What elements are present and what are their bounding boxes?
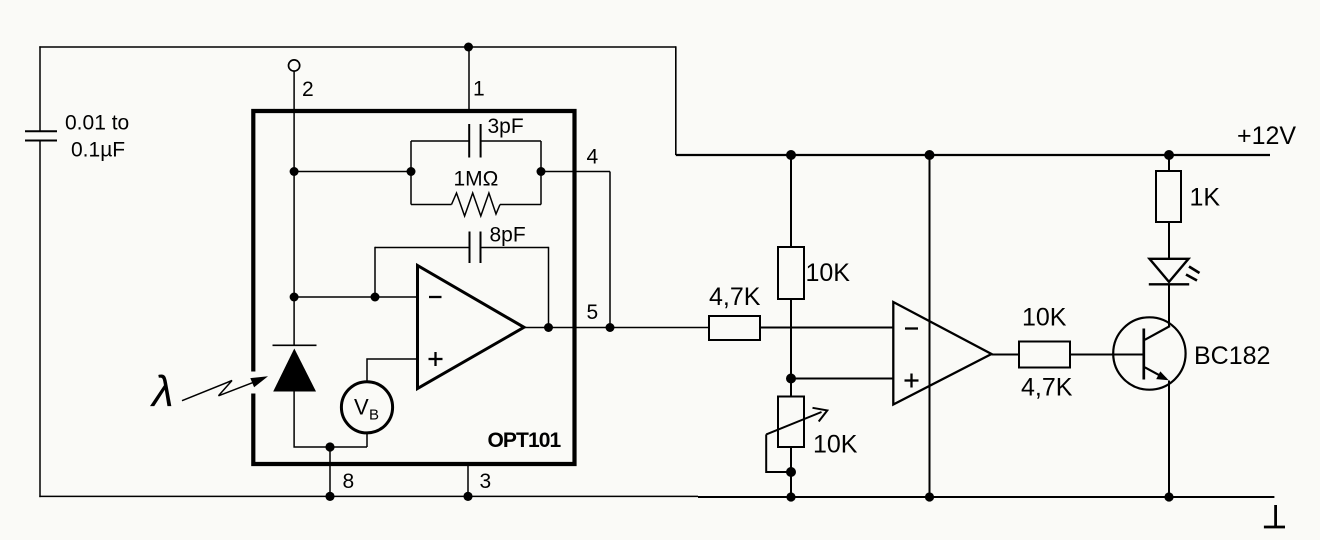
svg-text:10K: 10K [813, 431, 858, 459]
svg-text:3: 3 [480, 470, 492, 493]
wire pot bottom to ground rail [790, 447, 792, 497]
resistor R4 base resistor body [1019, 342, 1070, 368]
voltage source VB circle [341, 382, 392, 433]
svg-text:4: 4 [587, 146, 599, 169]
wire feedback mid rail pin2 to loop [294, 171, 411, 173]
wire photodiode anode down and to VB [294, 392, 367, 448]
op-amp U1 plus sign [429, 352, 443, 366]
svg-text:1: 1 [473, 78, 485, 101]
svg-text:BC182: BC182 [1194, 342, 1270, 370]
wire loop to pin 4 [541, 171, 610, 173]
pin 8 wire to ground rail [329, 447, 331, 496]
LED D2 cathode bar [1149, 283, 1189, 285]
node pin8 tap [325, 442, 334, 451]
wire top supply from bypass cap to +12V corner [39, 46, 676, 48]
transistor Q1 emitter [1145, 367, 1166, 379]
svg-text:2: 2 [302, 78, 314, 101]
node wiper / bottom [786, 467, 796, 477]
wire pin 5 output [524, 327, 709, 329]
svg-text:3pF: 3pF [488, 115, 524, 138]
wire non-inverting input from VB [367, 359, 418, 382]
wire emitter to ground rail [1168, 381, 1170, 498]
node output / pin4 [606, 323, 615, 332]
capacitor C-bypass 0.01-0.1uF plates [25, 131, 57, 140]
svg-text:10K: 10K [806, 259, 851, 287]
node pot / ground rail [786, 492, 795, 501]
node rail / 10K [786, 150, 796, 160]
wire non-inverting input [791, 378, 893, 380]
node loop right [537, 167, 546, 176]
resistor R2 10K body [778, 247, 804, 299]
wire VB bottom to common [366, 433, 368, 447]
potentiometer arrow open head [813, 408, 828, 422]
op-amp U2 comparator triangle [893, 302, 991, 405]
svg-text:4,7K: 4,7K [1021, 374, 1073, 402]
pin 2 wire down to photodiode cathode [293, 71, 295, 345]
transistor Q1 base bar [1142, 329, 1145, 380]
svg-text:0.1µF: 0.1µF [71, 139, 125, 162]
value label 0.01 to 0.1uF [65, 112, 129, 162]
wire inverting input [294, 296, 418, 298]
node pin2/feedback [290, 167, 299, 176]
svg-text:V: V [354, 395, 369, 420]
node 8pF / inv input [371, 293, 380, 302]
wire comparator output to base resistor [992, 354, 1020, 356]
wire left vertical from cap to ground rail [39, 141, 41, 498]
svg-text:5: 5 [587, 301, 599, 324]
wire 1K to LED anode [1168, 222, 1170, 259]
node opamp supply / ground rail [925, 492, 934, 501]
svg-text:1K: 1K [1190, 184, 1221, 212]
svg-text:+12V: +12V [1237, 122, 1296, 150]
op-amp U1 triangle (internal) [418, 266, 525, 389]
wire collector up to LED [1168, 284, 1170, 327]
resistor R3 4,7K body [709, 316, 760, 340]
op-amp U2 plus sign [905, 374, 919, 388]
potentiometer P1 10K body [778, 397, 804, 448]
+12V power rail [676, 154, 1270, 156]
node rail / opamp supply [925, 150, 935, 160]
svg-text:8pF: 8pF [490, 224, 526, 247]
wire 4,7K to comparator inverting input [760, 327, 893, 329]
light arrow filled head [250, 376, 268, 387]
transistor Q1 BC182 circle [1113, 317, 1185, 389]
svg-text:λ: λ [150, 367, 174, 416]
wire 8pF loop [375, 247, 549, 328]
node loop left [407, 167, 416, 176]
ground symbol [1264, 505, 1285, 527]
wire bottom ground rail left thin section [39, 495, 698, 497]
svg-text:OPT101: OPT101 [488, 429, 562, 452]
pin 2 open terminal circle [289, 60, 300, 71]
LED D2 triangle [1150, 259, 1189, 282]
svg-text:B: B [369, 407, 379, 424]
svg-text:4,7K: 4,7K [709, 283, 761, 311]
wire feedback loop 3pF / 1M rectangle [411, 141, 541, 205]
node junction top wire / pin1 [464, 43, 473, 52]
node emitter / ground rail [1164, 492, 1173, 501]
pin 3 wire to ground rail [467, 464, 469, 496]
label VB [354, 395, 379, 424]
wire +12V to 10K resistor [790, 155, 792, 247]
wire opamp supply vertical through triangle [929, 155, 931, 497]
wire pin 4 down to output node [609, 172, 611, 328]
node pin8 / ground rail [325, 492, 334, 501]
potentiometer arrow shaft [766, 412, 821, 434]
wire +12V to 1K [1168, 155, 1170, 171]
svg-text:8: 8 [343, 470, 355, 493]
capacitor C2 8pF plates [470, 232, 481, 264]
wire corner feed to +12V rail [675, 46, 677, 155]
op-amp IC box OPT101 outline with gap on left for light arrow [253, 111, 574, 464]
wire bottom ground rail right thick section [698, 496, 1274, 498]
node non-inverting divider [786, 374, 796, 384]
transistor Q1 collector [1145, 326, 1170, 340]
node pin3 / ground rail [463, 492, 472, 501]
transistor Q1 emitter arrow head [1156, 371, 1169, 380]
svg-text:10K: 10K [1022, 304, 1067, 332]
resistor R-feedback 1M zigzag [452, 193, 501, 216]
node rail / 1K [1164, 150, 1174, 160]
wire left vertical down to bypass capacitor [39, 46, 41, 131]
wire 10K to non-inv node (crossover at inv wire) [790, 299, 792, 397]
wire pot wiper to bottom terminal [766, 434, 791, 472]
op-amp U2 minus sign [905, 327, 918, 329]
op-amp U1 minus sign [429, 296, 442, 298]
resistor R5 1K body [1156, 171, 1181, 222]
photodiode D1 cathode bar [273, 344, 317, 346]
capacitor C1 3pF plates [469, 124, 480, 158]
photodiode D1 filled triangle [273, 349, 316, 392]
pin 1 wire from top rail down into package (also 3pF left plate) [468, 47, 470, 113]
light arrow zigzag shaft [182, 381, 254, 401]
LED D2 light ticks [1186, 267, 1200, 281]
node pin2 / inv input [290, 293, 299, 302]
node output / 8pF [544, 323, 553, 332]
svg-text:0.01 to: 0.01 to [65, 112, 129, 135]
svg-text:1MΩ: 1MΩ [454, 168, 499, 191]
wire base resistor to transistor base [1070, 354, 1144, 356]
